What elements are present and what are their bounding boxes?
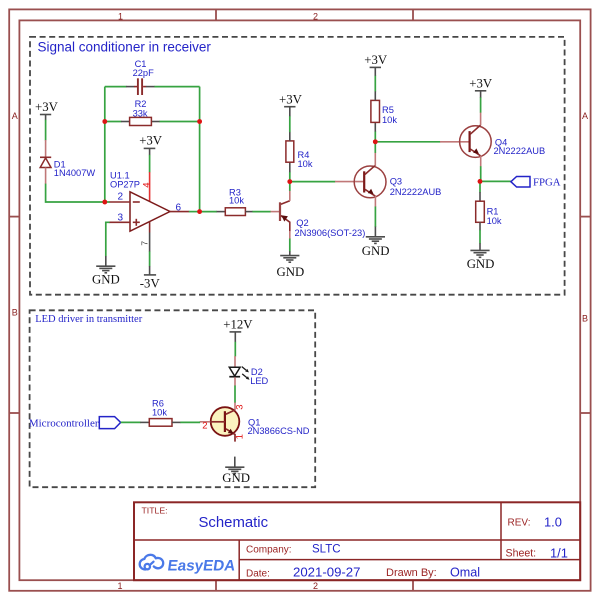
junction node Q3 collector / R5 bbox=[373, 140, 378, 145]
wire +12V to D2 bbox=[234, 342, 236, 357]
wire node to Q3 base bbox=[292, 181, 364, 183]
svg-text:SLTC: SLTC bbox=[312, 544, 341, 556]
op-amp pin 6 stub bbox=[170, 211, 189, 213]
wire right vertical x=199.6 bbox=[199, 87, 201, 212]
wire node to Q4 base bbox=[377, 141, 469, 143]
wire +3V to D1 bbox=[45, 120, 47, 141]
power +12V bbox=[223, 317, 253, 342]
wire node to R1 bbox=[479, 181, 481, 201]
wire Q2 collector to node bbox=[289, 182, 291, 191]
wire pin 7 to -3V bbox=[149, 251, 151, 266]
wire Q2 emitter to ground bbox=[289, 239, 291, 252]
resistor R5 bbox=[371, 100, 380, 122]
frame tick top x=413 bbox=[412, 9, 414, 20]
svg-text:GND: GND bbox=[92, 273, 120, 287]
wire +3V to op-amp pin 4 bbox=[149, 155, 151, 173]
svg-text:10k: 10k bbox=[487, 216, 502, 226]
svg-text:B: B bbox=[12, 308, 18, 318]
ground GND (R1) bbox=[470, 243, 489, 257]
svg-text:Microcontroller: Microcontroller bbox=[29, 418, 99, 430]
title block divider vertical x=501 bbox=[500, 502, 502, 559]
svg-text:A: A bbox=[12, 111, 18, 121]
power -3V bbox=[140, 266, 161, 290]
transistor Q3 2N2222AUB bbox=[354, 153, 386, 207]
power +3V (above D1) bbox=[35, 100, 59, 120]
resistor R2 bbox=[130, 117, 152, 125]
op-amp U1.1 OP27P bbox=[130, 192, 170, 231]
wire Q4 collector to +3V bbox=[480, 97, 482, 113]
svg-text:2N3866CS-ND: 2N3866CS-ND bbox=[248, 426, 310, 436]
svg-text:Q3: Q3 bbox=[390, 176, 402, 186]
svg-text:FPGA: FPGA bbox=[533, 177, 561, 189]
junction dots overlay bbox=[102, 119, 482, 214]
wire R4 to +3V bbox=[289, 116, 291, 141]
junction node Q2 collector / R4 bbox=[288, 179, 293, 184]
svg-text:Omal: Omal bbox=[450, 566, 480, 580]
op-amp pin 7 stub bbox=[149, 222, 151, 252]
svg-text:A: A bbox=[582, 111, 588, 121]
wire R6 to Q1 base bbox=[172, 421, 200, 423]
svg-text:6: 6 bbox=[176, 203, 182, 214]
EasyEDA logo cloud bbox=[140, 555, 164, 570]
svg-text:Drawn By:: Drawn By: bbox=[386, 567, 437, 579]
svg-text:Q2: Q2 bbox=[296, 218, 308, 228]
svg-text:Company:: Company: bbox=[246, 545, 292, 556]
power +3V (op-amp pin 4) bbox=[139, 133, 163, 155]
ground GND (op-amp pin 3) bbox=[96, 256, 115, 273]
svg-text:+3V: +3V bbox=[279, 92, 303, 106]
frame tick right y=413 bbox=[580, 412, 590, 414]
frame tick bottom x=216 bbox=[215, 580, 217, 591]
resistor R6 bbox=[149, 419, 172, 427]
wire node to R4 bbox=[289, 162, 291, 182]
svg-text:R5: R5 bbox=[382, 105, 394, 115]
svg-text:LED: LED bbox=[250, 376, 268, 386]
wire Q3 collector to node bbox=[374, 142, 376, 153]
op-amp U1.1 pin 4 stub bbox=[149, 172, 151, 201]
wire Q3 emitter to ground bbox=[374, 207, 376, 228]
svg-text:1: 1 bbox=[117, 581, 122, 591]
svg-text:7: 7 bbox=[140, 241, 150, 246]
svg-text:REV:: REV: bbox=[508, 518, 531, 529]
svg-text:LED driver in transmitter: LED driver in transmitter bbox=[35, 314, 143, 325]
op-amp pin 2 stub bbox=[109, 201, 130, 203]
dashed group box: LED driver in transmitter bbox=[30, 310, 316, 487]
wire D2 to Q1 collector bbox=[234, 386, 236, 403]
resistor R4 bbox=[286, 141, 294, 162]
svg-text:R1: R1 bbox=[487, 207, 499, 217]
wire R3 to Q2 base bbox=[245, 211, 279, 213]
capacitor C1 bbox=[138, 78, 142, 95]
wire flag to R6 bbox=[121, 421, 150, 423]
junction node at pin 6 bbox=[197, 209, 202, 214]
wire D1 to node pin2 bbox=[46, 184, 105, 202]
wire Q4 emitter to node bbox=[480, 166, 482, 181]
wire R5 to +3V bbox=[374, 75, 376, 100]
transistor Q4 2N2222AUB bbox=[460, 112, 492, 166]
svg-text:GND: GND bbox=[222, 471, 250, 485]
svg-text:2N2222AUB: 2N2222AUB bbox=[494, 146, 546, 156]
svg-text:1.0: 1.0 bbox=[544, 515, 562, 530]
title block divider horizontal y=540 bbox=[134, 539, 580, 541]
svg-text:+3V: +3V bbox=[469, 76, 493, 90]
svg-text:Date:: Date: bbox=[246, 569, 270, 580]
wire left vertical x=105 bbox=[104, 87, 106, 202]
op-amp pin 3 stub bbox=[109, 221, 130, 223]
svg-text:+3V: +3V bbox=[139, 133, 163, 147]
resistor R1 bbox=[476, 201, 485, 222]
svg-text:2N2222AUB: 2N2222AUB bbox=[390, 187, 442, 197]
frame tick left y=216 bbox=[9, 216, 19, 218]
svg-text:OP27P: OP27P bbox=[110, 179, 140, 189]
dashed group box: signal conditioner in receiver bbox=[30, 37, 565, 295]
ground GND (Q2) bbox=[280, 251, 299, 262]
svg-text:3: 3 bbox=[234, 404, 245, 409]
svg-text:2021-09-27: 2021-09-27 bbox=[293, 565, 360, 580]
svg-text:1: 1 bbox=[235, 434, 246, 439]
frame tick left y=413 bbox=[9, 412, 19, 414]
transistor Q2 2N3906(SOT-23) bbox=[280, 191, 290, 239]
frame tick bottom x=413 bbox=[412, 580, 414, 591]
title block divider horizontal y=559.6 bbox=[239, 559, 580, 561]
svg-text:4: 4 bbox=[142, 182, 153, 187]
svg-text:22pF: 22pF bbox=[133, 68, 155, 78]
svg-text:10k: 10k bbox=[382, 115, 397, 125]
svg-text:1N4007W: 1N4007W bbox=[54, 168, 96, 178]
frame tick right y=216 bbox=[580, 216, 590, 218]
title block divider vertical x=239.2 bbox=[238, 540, 240, 580]
svg-text:GND: GND bbox=[277, 265, 305, 279]
title block outline bbox=[134, 502, 580, 580]
svg-text:2: 2 bbox=[202, 420, 207, 431]
svg-text:+3V: +3V bbox=[364, 53, 388, 67]
svg-text:1: 1 bbox=[118, 12, 123, 22]
svg-text:EasyEDA: EasyEDA bbox=[166, 558, 236, 575]
svg-text:+12V: +12V bbox=[223, 317, 253, 331]
net port FPGA bbox=[511, 177, 530, 188]
svg-text:2: 2 bbox=[313, 12, 318, 22]
svg-text:3: 3 bbox=[118, 213, 124, 224]
wire R2 row bbox=[105, 121, 200, 123]
wire node to FPGA flag bbox=[482, 180, 511, 182]
svg-text:-3V: -3V bbox=[140, 276, 161, 290]
wire pin 6 to node bbox=[189, 211, 200, 213]
svg-text:B: B bbox=[582, 314, 588, 324]
svg-text:Schematic: Schematic bbox=[199, 515, 269, 531]
wire into pin 2 bbox=[105, 201, 110, 203]
junction node at pin 2 bbox=[103, 200, 108, 205]
diode D1 1N4007W bbox=[40, 140, 51, 184]
wire R1 to ground bbox=[479, 222, 481, 243]
power +3V (above R4) bbox=[279, 92, 303, 116]
net port Microcontroller bbox=[99, 417, 120, 429]
svg-text:10k: 10k bbox=[152, 407, 167, 417]
svg-text:2: 2 bbox=[118, 192, 124, 203]
ground GND (Q3) bbox=[366, 227, 385, 244]
resistor R3 bbox=[225, 208, 245, 216]
svg-text:GND: GND bbox=[467, 257, 495, 271]
power +3V (above Q4) bbox=[469, 76, 493, 97]
wire node to R5 bbox=[374, 122, 376, 142]
transistor Q1 2N3866CS-ND bbox=[200, 403, 240, 442]
LED D2 bbox=[229, 356, 249, 386]
wire pin 3 to ground bbox=[106, 222, 110, 256]
svg-text:TITLE:: TITLE: bbox=[142, 506, 168, 516]
junction node at R2 left bbox=[103, 119, 108, 124]
svg-text:1/1: 1/1 bbox=[550, 546, 568, 561]
wire C1 top row bbox=[105, 86, 200, 88]
wire node to R3 bbox=[200, 211, 226, 213]
svg-text:10k: 10k bbox=[229, 196, 244, 206]
svg-text:2N3906(SOT-23): 2N3906(SOT-23) bbox=[295, 228, 366, 238]
svg-text:Sheet:: Sheet: bbox=[506, 548, 537, 560]
svg-text:Signal conditioner in receiver: Signal conditioner in receiver bbox=[38, 40, 212, 55]
junction node at R2 right bbox=[197, 119, 202, 124]
power +3V (above R5) bbox=[364, 53, 388, 76]
svg-text:2: 2 bbox=[313, 581, 318, 591]
ground GND (Q1, floating below emitter) bbox=[225, 457, 244, 474]
junction node Q4 emitter / R1 / FPGA bbox=[478, 179, 483, 184]
svg-text:+3V: +3V bbox=[35, 100, 59, 114]
svg-text:GND: GND bbox=[362, 244, 390, 258]
frame tick top x=216 bbox=[215, 9, 217, 20]
svg-text:33k: 33k bbox=[133, 108, 148, 118]
svg-text:10k: 10k bbox=[298, 159, 313, 169]
